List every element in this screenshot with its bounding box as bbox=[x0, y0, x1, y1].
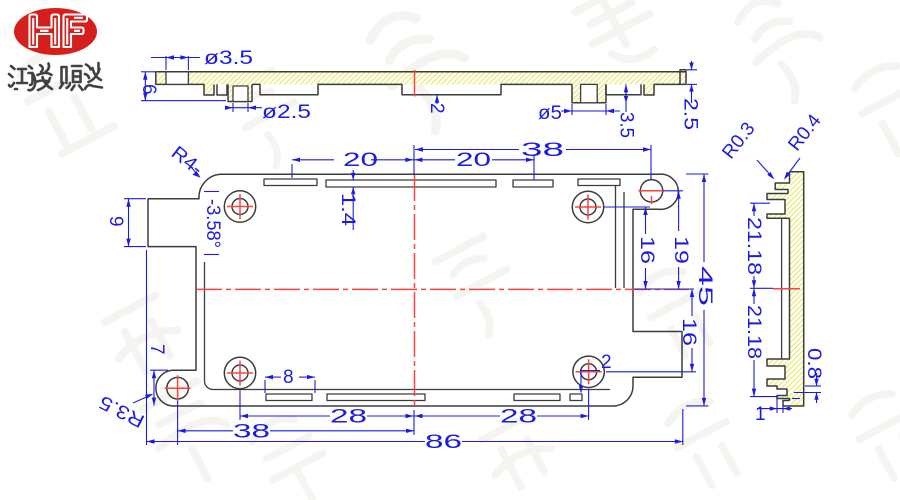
svg-text:R0.3: R0.3 bbox=[718, 119, 759, 163]
svg-text:21.18: 21.18 bbox=[743, 305, 764, 359]
svg-text:20: 20 bbox=[343, 150, 378, 171]
svg-text:45: 45 bbox=[694, 266, 715, 306]
svg-text:28: 28 bbox=[500, 407, 537, 428]
svg-text:9: 9 bbox=[105, 216, 126, 227]
svg-text:0.8: 0.8 bbox=[803, 348, 824, 379]
svg-text:6: 6 bbox=[138, 84, 159, 95]
svg-text:™: ™ bbox=[88, 11, 95, 18]
svg-text:8: 8 bbox=[283, 367, 294, 388]
svg-text:R3.5: R3.5 bbox=[96, 391, 148, 432]
svg-text:ø2.5: ø2.5 bbox=[262, 102, 311, 123]
svg-text:2: 2 bbox=[601, 352, 612, 373]
svg-text:-3.58°: -3.58° bbox=[202, 199, 223, 248]
svg-text:20: 20 bbox=[456, 150, 491, 171]
svg-text:7: 7 bbox=[146, 344, 167, 355]
svg-text:ø3.5: ø3.5 bbox=[204, 48, 253, 69]
svg-text:R4-: R4- bbox=[167, 142, 207, 179]
svg-text:1.4: 1.4 bbox=[337, 193, 358, 227]
svg-text:16: 16 bbox=[678, 318, 699, 346]
svg-text:R0.4: R0.4 bbox=[784, 110, 825, 155]
svg-text:86: 86 bbox=[425, 432, 462, 453]
svg-text:1: 1 bbox=[755, 404, 766, 425]
svg-text:38: 38 bbox=[233, 421, 270, 442]
svg-text:ø5: ø5 bbox=[538, 103, 562, 124]
svg-text:16: 16 bbox=[636, 236, 657, 264]
svg-text:3.5: 3.5 bbox=[616, 112, 637, 138]
svg-text:2: 2 bbox=[426, 103, 447, 114]
svg-text:21.18: 21.18 bbox=[743, 217, 764, 275]
svg-text:38: 38 bbox=[521, 140, 564, 161]
svg-text:2.5: 2.5 bbox=[680, 98, 701, 130]
svg-text:19: 19 bbox=[670, 236, 691, 264]
svg-text:28: 28 bbox=[330, 407, 367, 428]
